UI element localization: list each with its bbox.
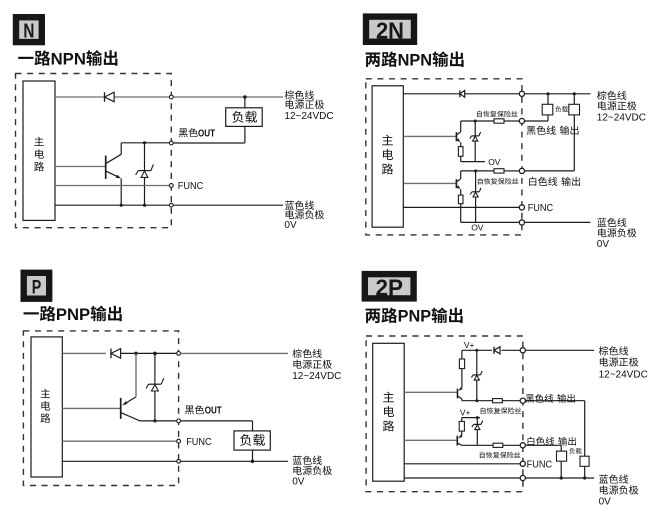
- svg-text:NPN: NPN: [398, 52, 433, 70]
- svg-text:2P: 2P: [375, 274, 403, 300]
- svg-text:0V: 0V: [284, 220, 297, 231]
- svg-text:0V: 0V: [597, 239, 610, 250]
- svg-text:P: P: [32, 277, 42, 299]
- svg-text:FUNC: FUNC: [527, 459, 553, 470]
- svg-text:2N: 2N: [376, 17, 404, 43]
- svg-text:OV: OV: [471, 223, 484, 233]
- svg-text:FUNC: FUNC: [528, 203, 554, 214]
- svg-text:PNP: PNP: [56, 306, 90, 324]
- svg-text:0V: 0V: [599, 497, 612, 508]
- svg-text:FUNC: FUNC: [186, 437, 212, 448]
- svg-text:OV: OV: [488, 157, 501, 167]
- svg-text:V+: V+: [464, 340, 475, 350]
- svg-text:NPN: NPN: [51, 50, 86, 68]
- svg-text:N: N: [23, 21, 34, 43]
- svg-text:12~24VDC: 12~24VDC: [284, 111, 333, 122]
- svg-text:12~24VDC: 12~24VDC: [599, 369, 648, 380]
- svg-text:12~24VDC: 12~24VDC: [597, 113, 646, 124]
- svg-text:FUNC: FUNC: [178, 181, 204, 192]
- svg-text:0V: 0V: [292, 476, 305, 487]
- svg-text:PNP: PNP: [398, 308, 432, 326]
- svg-text:OUT: OUT: [205, 406, 222, 417]
- svg-text:V+: V+: [460, 407, 471, 417]
- svg-text:OUT: OUT: [198, 128, 215, 139]
- svg-text:12~24VDC: 12~24VDC: [292, 371, 341, 382]
